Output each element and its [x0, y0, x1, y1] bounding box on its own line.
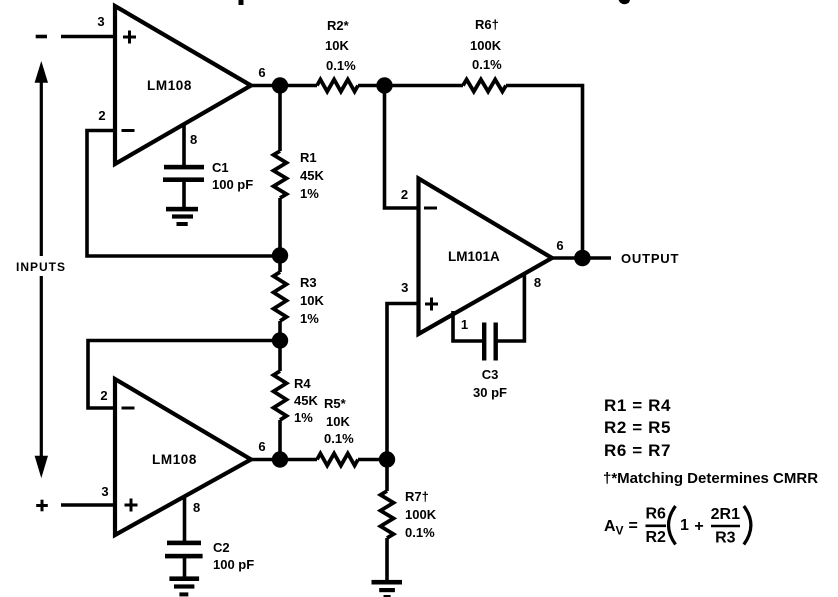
ground under C1	[166, 207, 198, 226]
svg-text:8: 8	[534, 275, 541, 290]
wire U1 pin8 to C1	[182, 124, 186, 166]
wire node B to U3 pin2	[385, 86, 419, 209]
op-amp U2 plus sign	[125, 499, 138, 512]
capacitor C2	[165, 541, 203, 559]
svg-text:1%: 1%	[300, 311, 319, 326]
svg-text:C2: C2	[213, 540, 230, 555]
svg-text:2: 2	[401, 187, 408, 202]
wire U2 output to R5	[251, 458, 317, 462]
svg-text:1: 1	[680, 517, 689, 534]
INPUTS arrowhead down	[36, 457, 47, 476]
wire U2 pin2 feedback loop	[88, 341, 280, 409]
op-amp U1 minus sign	[122, 129, 135, 132]
node F (R5 / R7 / U3 pin3)	[379, 451, 395, 467]
ground under C2	[169, 576, 199, 596]
svg-text:100K: 100K	[405, 507, 437, 522]
INPUTS arrow line upper	[40, 81, 43, 256]
resistor R6	[463, 80, 506, 92]
INPUTS arrowhead up	[36, 64, 47, 83]
svg-text:2: 2	[100, 388, 107, 403]
capacitor C1	[163, 165, 204, 182]
wire R6 to output node	[506, 86, 583, 259]
svg-text:R2 = R5: R2 = R5	[604, 418, 671, 437]
wire U1 output to R2	[251, 84, 317, 88]
svg-text:R5*: R5*	[324, 396, 347, 411]
svg-text:8: 8	[193, 500, 200, 515]
svg-text:3: 3	[401, 280, 408, 295]
op-amp U1 LM108 (top)	[115, 6, 251, 164]
svg-text:R3: R3	[300, 275, 317, 290]
svg-text:10K: 10K	[300, 293, 324, 308]
svg-text:1%: 1%	[300, 186, 319, 201]
svg-text:OUTPUT: OUTPUT	[621, 251, 679, 266]
svg-text:10K: 10K	[325, 38, 349, 53]
svg-text:8: 8	[190, 132, 197, 147]
svg-text:0.1%: 0.1%	[405, 525, 435, 540]
svg-text:R3: R3	[715, 530, 736, 547]
wire U1 pin2 feedback loop	[87, 131, 280, 257]
svg-text:6: 6	[556, 238, 563, 253]
svg-text:A: A	[604, 518, 616, 535]
svg-text:R6 = R7: R6 = R7	[604, 441, 671, 460]
equation fraction bars	[646, 524, 667, 527]
svg-text:C3: C3	[482, 367, 499, 382]
svg-text:100K: 100K	[470, 38, 502, 53]
capacitor C3	[482, 323, 498, 361]
op-amp U3 LM101A	[419, 179, 553, 335]
wire R2 to R6	[358, 84, 463, 88]
op-amp U3 plus sign	[425, 298, 438, 311]
svg-text:1: 1	[461, 317, 468, 332]
equation Av	[604, 506, 740, 547]
stray mark top left	[239, 0, 244, 5]
svg-text:1%: 1%	[294, 410, 313, 425]
svg-text:=: =	[629, 518, 638, 535]
svg-text:6: 6	[258, 65, 265, 80]
wire U3 pin1 to C3	[453, 311, 483, 341]
svg-text:3: 3	[97, 14, 104, 29]
svg-text:R7†: R7†	[405, 489, 429, 504]
svg-text:INPUTS: INPUTS	[16, 260, 66, 274]
svg-text:R6†: R6†	[475, 17, 499, 32]
svg-text:6: 6	[258, 439, 265, 454]
svg-text:+: +	[694, 518, 703, 535]
node E (U2 out / R4)	[272, 451, 288, 467]
resistor R3	[278, 256, 282, 272]
equation parentheses	[669, 506, 676, 545]
wire input plus to pin3 of U2	[61, 503, 116, 507]
svg-text:†*Matching Determines CMRR: †*Matching Determines CMRR	[603, 470, 818, 487]
ground under R7	[372, 580, 403, 597]
wire R5 to node F	[358, 458, 387, 462]
svg-text:100 pF: 100 pF	[213, 557, 254, 572]
svg-text:45K: 45K	[300, 168, 324, 183]
op-amp U2 LM108 (bottom)	[115, 379, 251, 535]
svg-text:LM101A: LM101A	[448, 249, 500, 264]
node B (R2 / R6 / U3 pin2)	[376, 77, 392, 93]
svg-text:0.1%: 0.1%	[326, 58, 356, 73]
svg-text:R2: R2	[645, 529, 666, 546]
resistor R7	[385, 460, 389, 492]
node minus input mark	[36, 35, 47, 39]
wire input minus to pin3 of U1	[61, 35, 116, 39]
node A (U1 out / R1 / R2)	[272, 77, 288, 93]
svg-text:LM108: LM108	[152, 452, 197, 467]
op-amp U1 plus sign	[123, 31, 136, 44]
wire U2 pin8 to C2	[183, 496, 187, 542]
resistor R4	[278, 341, 282, 371]
stray mark top right	[619, 0, 631, 4]
svg-text:3: 3	[101, 484, 108, 499]
op-amp U3 minus sign	[424, 207, 437, 210]
resistor R2	[317, 80, 358, 92]
svg-text:V: V	[616, 524, 624, 538]
resistor R5	[317, 454, 358, 466]
svg-text:LM108: LM108	[147, 78, 192, 93]
wire U3 pin3 to node F	[387, 304, 419, 460]
svg-text:100 pF: 100 pF	[212, 177, 253, 192]
node plus input mark	[36, 500, 48, 512]
svg-text:C1: C1	[212, 160, 229, 175]
svg-text:10K: 10K	[326, 414, 350, 429]
INPUTS arrow line lower	[40, 276, 43, 457]
svg-text:45K: 45K	[294, 393, 318, 408]
wire U3 pin8 to C3	[497, 273, 524, 341]
wire C1 to ground	[182, 182, 186, 208]
node C (R1 / R3 / U1 feedback)	[272, 247, 288, 263]
svg-text:R4: R4	[294, 376, 311, 391]
wire C2 to ground	[183, 558, 187, 578]
svg-text:30 pF: 30 pF	[473, 385, 507, 400]
resistor R1	[278, 86, 282, 152]
svg-text:2R1: 2R1	[711, 506, 740, 523]
wire U3 output	[552, 256, 611, 260]
svg-text:2: 2	[98, 108, 105, 123]
node D (R3 / R4 / U2 feedback)	[272, 332, 288, 348]
op-amp U2 minus sign	[122, 407, 135, 410]
svg-text:R1 = R4: R1 = R4	[604, 396, 671, 415]
svg-text:R1: R1	[300, 150, 317, 165]
svg-text:0.1%: 0.1%	[324, 431, 354, 446]
svg-text:R2*: R2*	[327, 18, 350, 33]
svg-text:0.1%: 0.1%	[472, 57, 502, 72]
node G (output)	[574, 250, 591, 267]
svg-text:R6: R6	[645, 506, 666, 523]
